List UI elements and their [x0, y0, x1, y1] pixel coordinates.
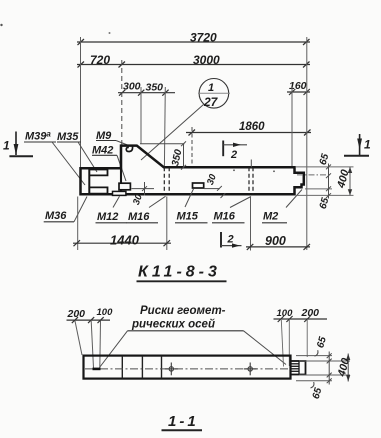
svg-text:27: 27: [203, 95, 219, 109]
leader right to riska: [244, 331, 287, 365]
svg-text:М16: М16: [128, 211, 150, 223]
plate M15: [193, 183, 204, 188]
dimension 1440: [73, 197, 171, 251]
label M12: [96, 196, 128, 223]
extension line dashed x121.8: [121, 60, 123, 145]
interior vertical at x141.8: [141, 356, 143, 379]
dimension 350: [162, 90, 168, 96]
channel M39a web (console inner vertical): [88, 170, 90, 194]
bottom view dims left: 200,100: [67, 317, 111, 323]
svg-text:1440: 1440: [110, 233, 140, 248]
joint 2 dashed lines: [248, 167, 250, 194]
svg-text:300: 300: [123, 81, 141, 93]
dimension 160: [287, 89, 310, 95]
section marker 1 right: [344, 134, 371, 156]
inner 65/270/65 dim line: [326, 164, 331, 199]
svg-text:2: 2: [230, 149, 237, 161]
speck inside beam 2: [273, 170, 275, 172]
leader left to riska: [100, 331, 128, 368]
svg-text:1: 1: [208, 82, 214, 94]
svg-text:720: 720: [90, 53, 110, 67]
plate A (M42 target): [119, 183, 130, 190]
svg-text:350: 350: [146, 82, 164, 94]
svg-text:М2: М2: [263, 211, 278, 223]
label M35: [57, 131, 97, 172]
label M42: [92, 145, 126, 182]
dimension 3720: [77, 39, 310, 45]
dimension 1860: [186, 130, 311, 136]
label M36: [44, 197, 87, 223]
short mark above joint 2: [250, 160, 252, 168]
svg-text:30: 30: [205, 172, 219, 186]
interior vertical at x121.5: [121, 356, 123, 379]
svg-text:3000: 3000: [193, 53, 220, 67]
svg-text:200: 200: [301, 307, 320, 319]
svg-text:100: 100: [97, 307, 114, 318]
axis dash-dot: [85, 368, 289, 370]
bottom view (section 1-1) outline: [84, 356, 291, 379]
tenon serrations: [292, 364, 299, 372]
svg-text:1-1: 1-1: [168, 413, 199, 430]
svg-text:М16: М16: [214, 211, 236, 223]
tenon (plan): [291, 361, 306, 375]
lifting loop M9 (hook under top edge): [126, 147, 132, 152]
extension line left x80.5: [80, 37, 82, 167]
right side extension lines (main view): [296, 167, 354, 196]
svg-text:Риски геомет-: Риски геомет-: [140, 305, 226, 317]
outer 400 dim: [349, 167, 351, 196]
svg-text:1: 1: [3, 139, 10, 153]
plate B (M12 target): [113, 191, 126, 195]
plate M36 (bottom slot): [89, 187, 107, 193]
svg-text:рических осей: рических осей: [131, 319, 215, 331]
svg-text:900: 900: [265, 234, 286, 248]
svg-text:3720: 3720: [190, 31, 217, 45]
extension line dashed x192 (1860 left): [191, 127, 193, 167]
beam outline (elevation): [81, 146, 304, 195]
inner 65 dims (bottom view): [311, 350, 332, 388]
dimension 300: [118, 90, 175, 96]
leader from circle to haunch: [141, 105, 204, 161]
speck top-left: [0, 24, 2, 26]
svg-text:1860: 1860: [239, 121, 265, 133]
label M2: [262, 190, 302, 223]
section marker 2 bottom: [221, 232, 242, 248]
dim 30 right: [204, 186, 225, 198]
bottom view right extensions: [296, 356, 350, 381]
label M39a: [24, 130, 85, 186]
extension line x141: [140, 87, 142, 144]
label M9: [96, 130, 130, 146]
svg-text:200: 200: [67, 308, 86, 320]
svg-text:65: 65: [318, 152, 332, 166]
riska cross 1: [165, 363, 178, 376]
svg-text:2: 2: [227, 234, 234, 246]
svg-text:65: 65: [315, 335, 329, 349]
svg-text:65: 65: [318, 196, 332, 210]
svg-text:К11-8-3: К11-8-3: [138, 264, 221, 281]
outer 400 dim (bottom view): [347, 354, 349, 382]
dim 30 left: [132, 182, 155, 196]
extension line x292 (160): [291, 87, 293, 166]
interior vertical at x162.8: [161, 356, 163, 379]
extension line x165 (350 end / joint): [163, 87, 166, 167]
right group extension lines: [281, 320, 307, 367]
plate M35 (top slot): [89, 170, 107, 176]
label M16 right: [212, 197, 251, 223]
speck inside beam 1: [233, 169, 235, 171]
svg-text:М15: М15: [177, 211, 199, 223]
section marker 2 top: [223, 141, 247, 162]
svg-text:М36: М36: [45, 210, 67, 222]
label M16 left: [127, 196, 166, 223]
svg-text:М42: М42: [92, 145, 113, 157]
extension line right x306.8: [306, 37, 308, 250]
svg-text:М35: М35: [57, 131, 79, 143]
left group extension lines: [75, 321, 101, 369]
dimension 720: [78, 62, 85, 68]
block left interior vertical: [120, 146, 122, 194]
detail circle 1/27: [198, 79, 230, 110]
joint 1 dashed lines: [163, 167, 165, 194]
vertical dim 350 (haunch): [140, 141, 186, 169]
label M15: [175, 189, 208, 223]
section marker 1 left: [3, 132, 33, 157]
extension line 1440 right (joint): [166, 197, 168, 251]
svg-text:350: 350: [170, 148, 184, 167]
dimension 3000: [77, 62, 310, 68]
svg-text:М39а: М39а: [25, 130, 51, 143]
svg-text:65: 65: [311, 386, 325, 400]
riska mark left (thick): [93, 368, 101, 371]
bottom view dims right: 100,200: [274, 316, 328, 322]
speck above 720: [109, 32, 111, 34]
riska cross 2: [244, 363, 257, 376]
svg-text:М12: М12: [97, 211, 118, 223]
svg-text:400: 400: [335, 168, 352, 191]
svg-text:1: 1: [364, 138, 371, 152]
dimension 900: [246, 197, 310, 251]
svg-text:100: 100: [277, 308, 294, 319]
